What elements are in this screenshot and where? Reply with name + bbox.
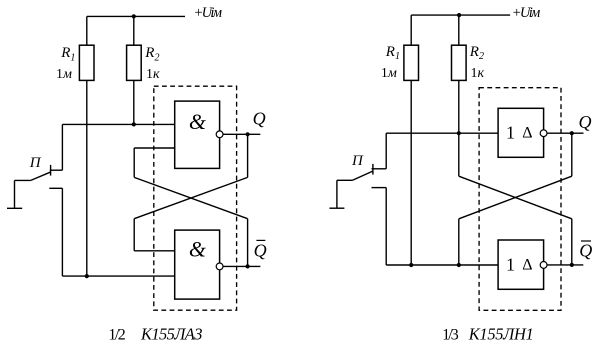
- svg-text:+Uім: +Uім: [194, 5, 223, 21]
- svg-text:Δ: Δ: [522, 257, 532, 274]
- wire upper contact stub (left): [50, 169, 63, 171]
- resistor R2 (left): [127, 45, 142, 80]
- wire Q feedback vertical down (left): [247, 134, 249, 177]
- wire Q output (left): [223, 133, 260, 135]
- wire Q-bar feedback diagonal (right): [459, 176, 572, 219]
- dashed IC boundary К155ЛН1: [479, 88, 561, 311]
- resistor R1 (left): [79, 45, 94, 80]
- overbar of Q-bar (left): [256, 239, 265, 241]
- wire riser to switch upper contact (right): [385, 133, 387, 169]
- wire reset-input horizontal to gate 2 (left): [62, 275, 174, 277]
- wire upper contact stub (right): [372, 168, 387, 170]
- wire set-input horizontal to gate 1 (left): [62, 123, 174, 125]
- svg-text:1/2: 1/2: [108, 327, 125, 344]
- svg-text:&: &: [189, 109, 207, 134]
- pole terminal bar (right): [329, 207, 344, 209]
- wire Q-bar output (left): [223, 265, 260, 267]
- overbar of Q-bar (right): [581, 240, 591, 242]
- wire input horizontal to gate2 (right): [386, 264, 498, 266]
- pole terminal bar (left): [7, 207, 22, 209]
- wire R2 top lead (left): [133, 16, 135, 45]
- output bubble U1.2: [216, 263, 223, 270]
- wire R1 top lead (left): [86, 16, 88, 45]
- switch lever П (right): [353, 171, 373, 180]
- NAND gate U1.2 body: [175, 230, 220, 299]
- svg-text:Δ: Δ: [522, 125, 532, 142]
- wire R1 bottom lead down to reset wire (left): [86, 80, 88, 276]
- wire R2 bottom lead (left): [133, 80, 135, 124]
- inverter gate U2.2 body: [498, 240, 543, 289]
- wire R1 bottom lead down (right): [410, 80, 412, 265]
- switch lever П (left): [31, 172, 50, 180]
- wire Q-bar output (right): [547, 264, 583, 266]
- junction dot input node of gate1 (right): [457, 131, 461, 135]
- wire Q output (right): [547, 132, 584, 134]
- svg-text:1м: 1м: [56, 67, 72, 82]
- svg-text:Q: Q: [579, 112, 592, 132]
- wire gate2 upper input stub (left): [134, 250, 175, 252]
- wire Q-bar feedback vertical (left): [247, 219, 249, 267]
- wire gate1 lower input riser (left): [133, 148, 135, 177]
- svg-text:1к: 1к: [146, 67, 160, 82]
- resistor R2 (right): [452, 45, 467, 80]
- wire input horizontal to gate1 (right): [386, 132, 498, 134]
- svg-text:1: 1: [506, 255, 515, 275]
- junction dot Q-bar (left): [246, 264, 250, 268]
- svg-text:+Uім: +Uім: [512, 5, 541, 21]
- output bubble U1.1: [216, 131, 223, 138]
- wire Q feedback diagonal (right): [459, 176, 572, 219]
- upper contact tick (left): [50, 165, 52, 176]
- NAND gate U1.1 body: [175, 101, 220, 168]
- wire riser to switch upper contact (left): [61, 124, 63, 170]
- svg-text:П: П: [351, 153, 364, 169]
- wire pole lead (left): [15, 179, 31, 181]
- svg-text:1м: 1м: [381, 66, 397, 81]
- junction dot rail/R2 (right): [457, 13, 461, 17]
- wire R1 top lead (right): [410, 15, 412, 45]
- wire Q feedback diagonal (left): [134, 177, 247, 218]
- wire Q-bar feedback vertical (right): [571, 219, 573, 265]
- svg-text:П: П: [29, 155, 42, 171]
- wire pole lead (right): [337, 179, 353, 181]
- wire pole down (left): [14, 180, 16, 208]
- svg-text:Q: Q: [254, 240, 267, 260]
- svg-text:Q: Q: [579, 241, 592, 261]
- wire +U power rail (right circuit): [411, 14, 510, 16]
- upper contact tick (right): [372, 164, 374, 175]
- wire R2 bottom lead through node down to diagonal (right): [458, 80, 460, 176]
- junction dot Q (left): [246, 132, 250, 136]
- wire to gate2 upper input (left): [133, 219, 135, 251]
- wire riser from lower contact (left): [61, 188, 63, 276]
- wire lower contact stub (right): [372, 187, 387, 189]
- dashed IC boundary К155ЛА3: [154, 86, 237, 310]
- junction dot R1/gate2 wire (right): [409, 263, 413, 267]
- wire pole down (right): [336, 180, 338, 208]
- output bubble U2.2: [540, 262, 547, 269]
- junction dot R1/reset wire (left): [85, 274, 89, 278]
- wire Q feedback to gate2 node (right): [458, 219, 460, 265]
- svg-text:Q: Q: [253, 109, 266, 129]
- wire Q-bar feedback diagonal (left): [134, 177, 247, 218]
- svg-text:1/3: 1/3: [442, 327, 459, 344]
- output bubble U2.1: [540, 130, 547, 137]
- inverter gate U2.1 body: [498, 108, 543, 157]
- wire Q feedback vertical down (right): [571, 133, 573, 176]
- svg-text:&: &: [189, 237, 207, 262]
- wire riser from lower contact (right): [385, 188, 387, 265]
- resistor R1 (right): [404, 45, 419, 80]
- svg-text:1к: 1к: [471, 66, 485, 81]
- junction dot rail/R2 (left): [132, 14, 136, 18]
- wire lower contact stub (left): [49, 187, 62, 189]
- wire R2 top lead (right): [458, 15, 460, 45]
- svg-text:К155ЛН1: К155ЛН1: [468, 325, 534, 344]
- wire +U power rail (left circuit): [87, 15, 185, 17]
- svg-text:1: 1: [506, 123, 515, 143]
- wire gate1 lower input stub (left): [134, 147, 175, 149]
- junction dot set-node (left): [132, 122, 136, 126]
- junction dot Q (right): [570, 131, 574, 135]
- junction dot feedback/gate2 wire (right): [457, 263, 461, 267]
- junction dot Q-bar (right): [570, 263, 574, 267]
- svg-text:К155ЛА3: К155ЛА3: [140, 325, 203, 344]
